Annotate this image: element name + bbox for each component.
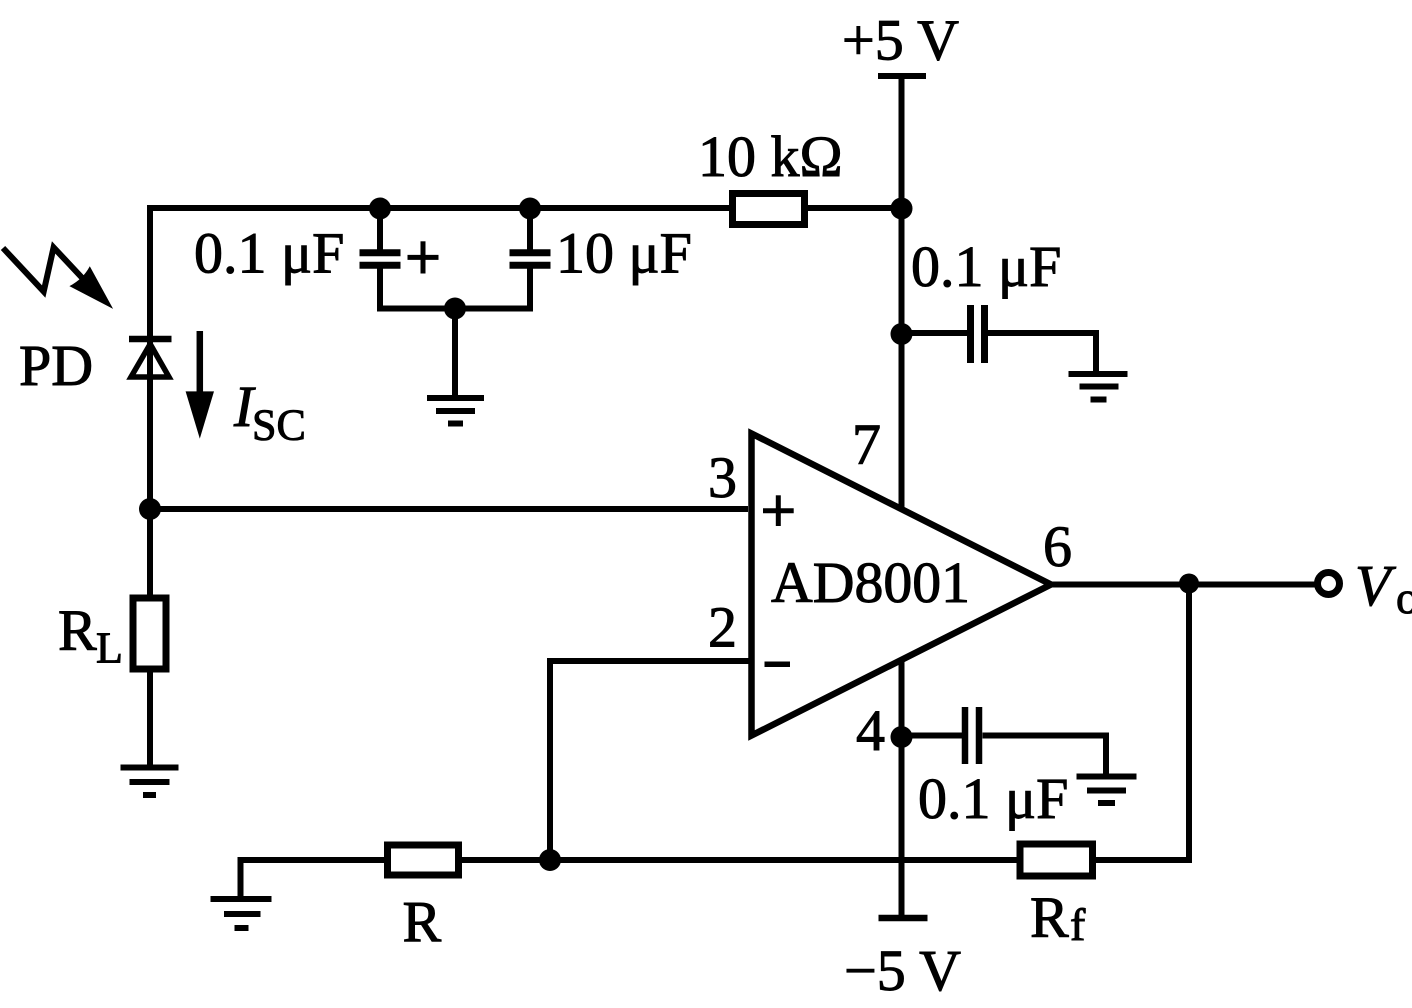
svg-text:L: L (96, 624, 123, 673)
svg-text:0.1 μF: 0.1 μF (194, 221, 344, 286)
svg-text:SC: SC (252, 401, 306, 450)
svg-text:AD8001: AD8001 (771, 550, 970, 615)
svg-text:2: 2 (708, 595, 737, 660)
svg-text:f: f (1070, 899, 1086, 950)
svg-text:R: R (1030, 885, 1069, 950)
svg-text:−5 V: −5 V (844, 938, 961, 1003)
svg-text:10 μF: 10 μF (556, 221, 692, 286)
svg-text:0.1 μF: 0.1 μF (911, 234, 1061, 299)
svg-text:R: R (403, 890, 442, 955)
svg-text:PD: PD (19, 333, 93, 398)
svg-text:3: 3 (708, 445, 737, 510)
svg-text:4: 4 (856, 698, 885, 763)
svg-text:6: 6 (1043, 514, 1072, 579)
svg-text:7: 7 (852, 412, 881, 477)
svg-text:+5 V: +5 V (842, 8, 959, 73)
svg-text:0.1 μF: 0.1 μF (918, 766, 1068, 831)
svg-text:10 kΩ: 10 kΩ (698, 124, 843, 189)
svg-text:o: o (1396, 572, 1412, 623)
svg-text:R: R (58, 598, 97, 663)
